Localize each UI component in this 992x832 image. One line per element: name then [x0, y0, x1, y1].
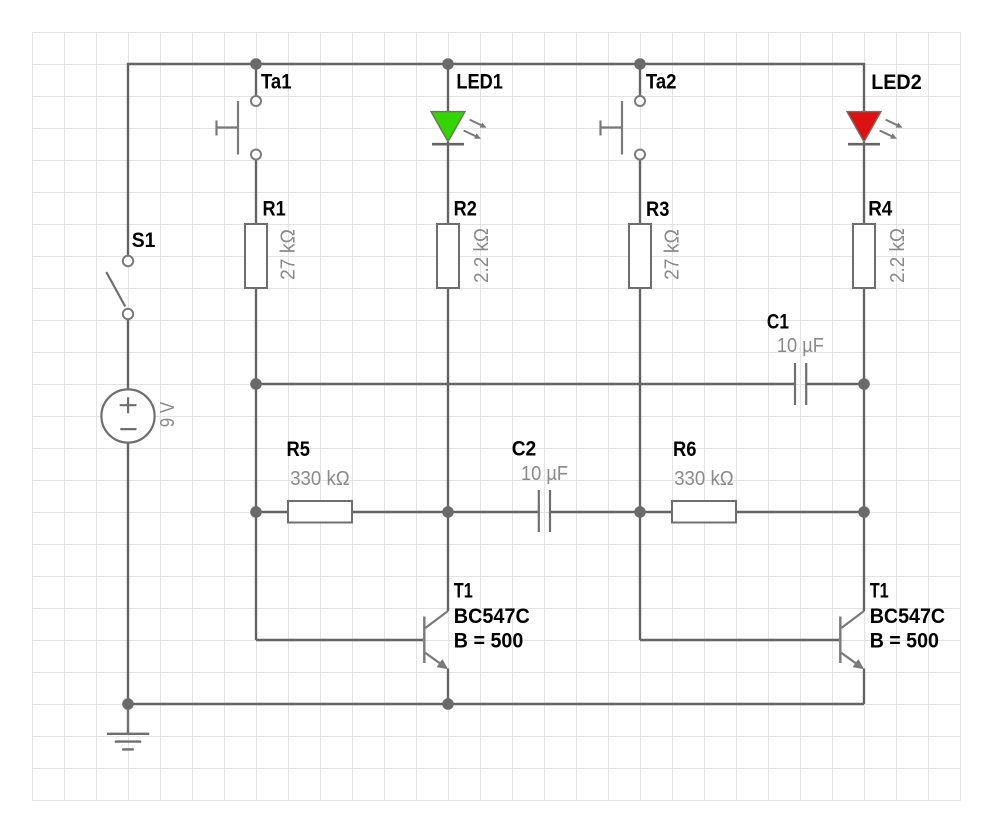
push button Ta2 actuator	[601, 101, 623, 155]
transistor T1 left collector lead	[425, 611, 448, 628]
wire T1 left emitter to ground rail	[447, 669, 449, 705]
push button Ta2 bottom contact	[635, 150, 645, 160]
battery minus sign	[120, 428, 136, 430]
transistor T1 right collector lead	[841, 611, 864, 628]
svg-text:Ta2: Ta2	[646, 71, 677, 94]
wire LED2 to R4	[863, 142, 865, 224]
wire T1 right base wire	[640, 639, 839, 641]
wire bottom ground rail	[128, 703, 864, 705]
push button Ta1 top contact	[251, 96, 261, 106]
svg-text:LED1: LED1	[456, 71, 503, 94]
svg-text:R3: R3	[646, 198, 669, 221]
wire R3 to node C	[639, 288, 641, 512]
wire node B to R5	[256, 511, 288, 513]
svg-text:C1: C1	[767, 311, 789, 334]
wire LED1 to R2	[447, 142, 449, 224]
wire button Ta1 to R1	[255, 159, 257, 224]
LED LED1 light arrow 1	[470, 120, 487, 128]
node A: R1-C1-R5 junction	[250, 378, 262, 390]
battery voltage source 9V circle	[101, 389, 154, 442]
svg-text:Ta1: Ta1	[261, 71, 292, 94]
node collector T1 left junction	[442, 506, 454, 518]
wire R4 to node D	[863, 288, 865, 384]
push button Ta2 top contact	[635, 96, 645, 106]
svg-text:S1: S1	[132, 229, 156, 252]
resistor R3 body	[629, 224, 651, 288]
LED LED2 cathode bar	[848, 143, 880, 146]
svg-text:R5: R5	[287, 438, 311, 461]
svg-text:9 V: 9 V	[157, 401, 179, 427]
wire battery to ground node	[127, 442, 129, 704]
svg-text:B = 500: B = 500	[870, 629, 939, 652]
LED LED2 light arrow 2	[880, 131, 897, 139]
switch S1 bottom contact	[123, 309, 133, 319]
push button Ta1 bottom contact	[251, 150, 261, 160]
wire C1 to LED2 column	[806, 383, 864, 385]
wire node B down to base row	[255, 512, 257, 640]
wire T1 left base wire	[256, 639, 423, 641]
push button Ta1 actuator	[217, 101, 239, 155]
wire node C to R6	[640, 511, 672, 513]
wire node A to node B	[255, 384, 257, 512]
node top rail / LED1	[442, 58, 454, 70]
node top rail / Ta1	[250, 58, 262, 70]
svg-text:10 µF: 10 µF	[521, 463, 568, 485]
wire S1 to battery	[127, 319, 129, 389]
transistor T1 left base bar	[423, 617, 425, 664]
resistor R5 body	[288, 501, 352, 523]
transistor T1 right base bar	[839, 617, 841, 664]
node ground rail / battery	[122, 698, 134, 710]
svg-text:330 kΩ: 330 kΩ	[674, 468, 734, 490]
node top rail / Ta2	[634, 58, 646, 70]
switch S1 blade	[106, 272, 125, 307]
svg-text:27 kΩ: 27 kΩ	[278, 229, 300, 280]
wire collector node to T1 left	[447, 512, 449, 611]
wire C2 to node C	[551, 511, 640, 513]
wire node D to node E	[863, 384, 865, 512]
svg-text:2.2 kΩ: 2.2 kΩ	[887, 228, 909, 283]
wire R2 to collector node	[447, 288, 449, 512]
wire button Ta2 to R3	[639, 159, 641, 224]
resistor R4 body	[853, 224, 875, 288]
svg-text:LED2: LED2	[871, 71, 922, 94]
svg-text:BC547C: BC547C	[870, 605, 945, 628]
wire T1 right emitter to ground rail	[863, 669, 865, 705]
wire LED1 column: rail to LED1	[447, 64, 449, 112]
wire R6 to LED2 column	[736, 511, 864, 513]
resistor R1 body	[245, 224, 267, 288]
wire top supply rail with corners	[128, 64, 864, 256]
LED LED2 light arrow 1	[886, 120, 903, 128]
svg-text:B = 500: B = 500	[454, 629, 524, 652]
transistor T1 right emitter lead with arrow	[841, 653, 864, 669]
switch S1 top contact	[123, 256, 133, 266]
node C: C2-R3-R6 junction	[634, 506, 646, 518]
svg-text:2.2 kΩ: 2.2 kΩ	[471, 228, 493, 283]
svg-text:R2: R2	[454, 198, 477, 221]
svg-text:T1: T1	[870, 579, 889, 602]
battery plus sign	[120, 397, 137, 413]
node E: R6-collector right junction	[858, 506, 870, 518]
transistor T1 left emitter lead with arrow	[425, 653, 448, 669]
ground symbol	[107, 704, 149, 749]
LED LED1 triangle	[431, 112, 465, 142]
LED LED1 cathode bar	[432, 143, 464, 146]
wire Ta2 column: rail to button	[639, 64, 641, 96]
wire node E to T1 right collector	[863, 512, 865, 611]
node B: R5 left junction	[250, 506, 262, 518]
LED LED1 light arrow 2	[464, 131, 481, 139]
svg-text:R1: R1	[263, 198, 286, 221]
wire collector node to C2	[448, 511, 538, 513]
svg-text:T1: T1	[454, 579, 473, 602]
wire R5 to collector node left	[352, 511, 448, 513]
svg-text:10 µF: 10 µF	[777, 335, 824, 357]
wire node C down to base row	[639, 512, 641, 640]
wire R1 to node A	[255, 288, 257, 384]
node D: C1-LED2 column junction	[858, 378, 870, 390]
capacitor C1 plates	[795, 363, 806, 405]
svg-text:C2: C2	[512, 438, 537, 461]
svg-text:R4: R4	[868, 198, 892, 221]
capacitor C2 plates	[539, 490, 550, 532]
svg-text:330 kΩ: 330 kΩ	[290, 468, 350, 490]
node ground rail / emitter left	[442, 698, 454, 710]
wire Ta1 column: rail to button	[255, 64, 257, 96]
svg-text:27 kΩ: 27 kΩ	[662, 229, 684, 280]
LED LED2 triangle	[847, 112, 881, 142]
svg-text:R6: R6	[673, 438, 697, 461]
wire base coupling rail to C1	[256, 383, 795, 385]
resistor R6 body	[672, 501, 736, 523]
svg-text:BC547C: BC547C	[454, 605, 530, 628]
resistor R2 body	[437, 224, 459, 288]
